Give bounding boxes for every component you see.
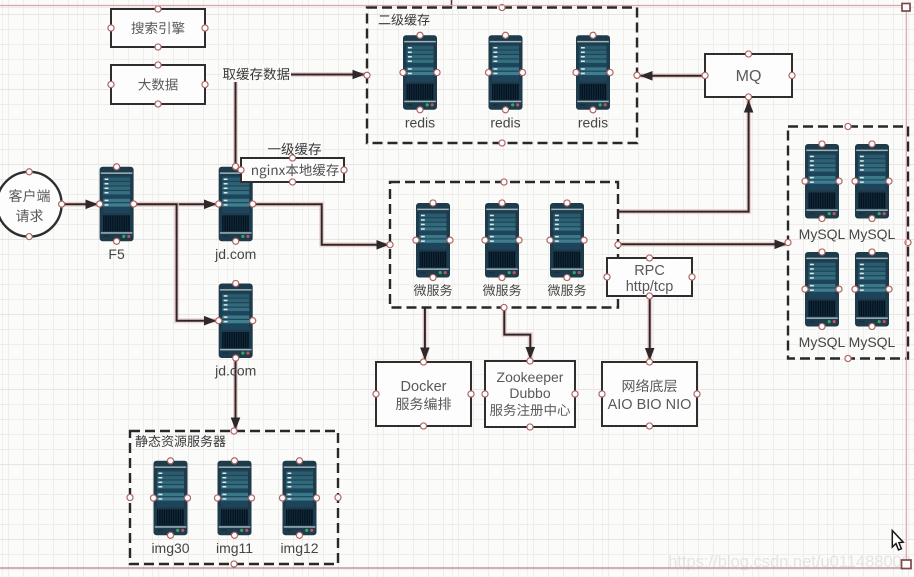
wire F5 to jd.com lower — [133, 204, 216, 320]
dashed container MySQL cluster — [785, 123, 911, 361]
svg-text:redis: redis — [490, 114, 520, 130]
svg-text:http/tcp: http/tcp — [626, 279, 674, 295]
svg-text:F5: F5 — [108, 246, 125, 262]
svg-text:Docker: Docker — [401, 379, 447, 395]
svg-text:AIO BIO NIO: AIO BIO NIO — [608, 397, 692, 413]
wire jd.com lower to static box — [233, 357, 238, 430]
svg-text:redis: redis — [578, 114, 608, 130]
label 取缓存数据 get cache data — [221, 64, 291, 83]
dashed container L2 cache 二级缓存 — [364, 4, 640, 146]
wire MQ to L2 cache box — [641, 73, 706, 78]
box 搜索引擎 search engine — [108, 6, 208, 50]
selection handle top-right — [902, 4, 910, 12]
wire RPC to network layer — [647, 296, 652, 361]
server microservice 3 — [547, 200, 587, 296]
server jd.com lower — [214, 280, 256, 378]
svg-text:jd.com: jd.com — [214, 246, 256, 262]
selection rectangle top edge — [0, 5, 906, 7]
svg-text:img12: img12 — [280, 540, 318, 556]
server MySQL 4 — [849, 249, 896, 350]
wire jd.com top to L2 cache box — [236, 75, 365, 167]
server redis 2 — [485, 32, 525, 130]
server redis 1 — [400, 32, 440, 130]
svg-text:jd.com: jd.com — [214, 363, 256, 379]
svg-text:img11: img11 — [216, 540, 253, 556]
wire jd.com to microservices box — [252, 204, 388, 245]
wire microservices box to MQ — [618, 101, 749, 212]
box Docker 服务编排 — [373, 359, 474, 429]
svg-text:Dubbo: Dubbo — [509, 385, 550, 401]
svg-text:MySQL: MySQL — [799, 226, 846, 242]
server MySQL 1 — [799, 141, 846, 242]
box Zookeeper Dubbo 服务注册中心 — [482, 358, 578, 430]
server img12 — [279, 458, 319, 556]
box nginx local cache — [232, 155, 347, 185]
svg-text:img30: img30 — [151, 540, 189, 556]
svg-text:MySQL: MySQL — [799, 334, 846, 350]
server img11 — [214, 458, 254, 556]
dashed container microservices 微服务 — [387, 179, 621, 311]
selection rectangle bottom edge — [0, 567, 906, 569]
box MQ — [702, 51, 795, 100]
server microservice 2 — [482, 200, 522, 296]
box RPC http/tcp — [604, 255, 695, 299]
wire microservices box to Zookeeper — [504, 308, 530, 360]
label 一级缓存 L1 cache — [268, 143, 321, 156]
svg-text:MySQL: MySQL — [849, 334, 896, 350]
box 网络底层 AIO BIO NIO — [599, 359, 700, 429]
wire from offscreen top into L2 cache box — [451, 0, 453, 8]
server MySQL 2 — [849, 141, 896, 242]
server redis 3 — [573, 32, 613, 130]
server microservice 1 — [413, 200, 453, 296]
wire microservices box to Docker — [422, 308, 427, 360]
svg-text:MySQL: MySQL — [849, 226, 896, 242]
svg-text:redis: redis — [405, 114, 435, 130]
wire F5 to jd.com — [133, 202, 216, 207]
server jd.com — [214, 164, 256, 262]
svg-text:Zookeeper: Zookeeper — [497, 369, 564, 385]
mouse cursor — [892, 531, 903, 550]
server img30 — [150, 458, 190, 556]
wire client to F5 — [62, 202, 98, 207]
ellipse client request 客户端请求 — [0, 169, 65, 240]
box 大数据 big data — [108, 62, 208, 107]
dashed container static resources 静态资源服务器 — [127, 428, 341, 567]
server MySQL 3 — [799, 249, 846, 350]
selection handle bottom-right — [902, 560, 912, 569]
svg-text:MQ: MQ — [736, 68, 762, 85]
selection rectangle right edge — [905, 6, 907, 569]
wire microservices box to MySQL box — [618, 242, 787, 247]
server F5 — [97, 164, 137, 262]
svg-text:RPC: RPC — [634, 263, 665, 279]
